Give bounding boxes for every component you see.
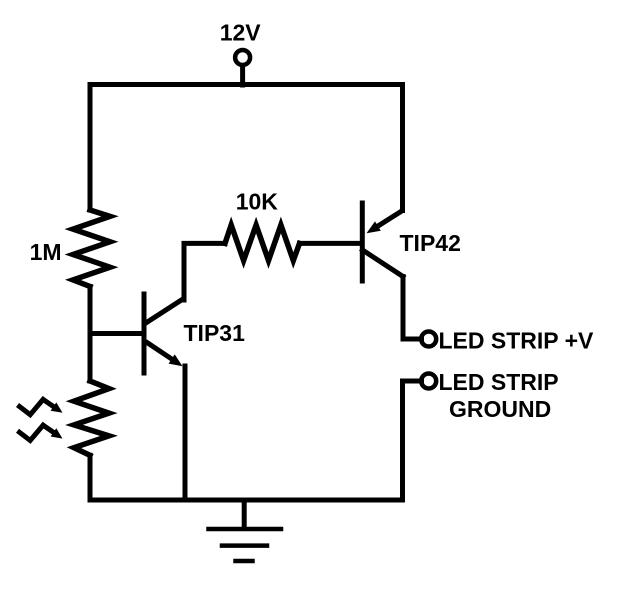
terminal 12V — [235, 50, 250, 65]
resistor R1 1M — [73, 210, 110, 287]
wire bottom rail — [90, 498, 403, 503]
light arrow 1 — [20, 399, 44, 414]
wire 1M to LDR — [88, 287, 93, 382]
terminal LED STRIP +V — [421, 332, 436, 347]
svg-text:10K: 10K — [236, 188, 279, 214]
resistor R2 10K — [225, 225, 300, 261]
wire TIP31 base — [90, 331, 143, 336]
wire top rail to TIP42 emitter — [400, 85, 405, 211]
wire TIP31 collector — [184, 243, 225, 300]
wire GROUND terminal to bottom rail — [403, 381, 422, 500]
light arrow 2 — [20, 425, 44, 440]
wire top rail — [90, 82, 403, 87]
svg-text:12V: 12V — [220, 19, 262, 45]
transistor Q2 TIP42 — [362, 203, 403, 281]
wire 10K to TIP42 base — [300, 241, 361, 246]
svg-text:TIP31: TIP31 — [184, 320, 246, 346]
wire TIP42 collector to +V terminal — [403, 277, 422, 340]
wire left rail upper — [88, 85, 93, 211]
wire TIP31 emitter to bottom rail — [183, 366, 188, 500]
wire 12V stub — [240, 67, 245, 86]
svg-text:LED STRIP +V: LED STRIP +V — [439, 327, 595, 353]
svg-text:GROUND: GROUND — [449, 396, 551, 422]
ground — [209, 500, 282, 561]
svg-text:TIP42: TIP42 — [400, 230, 461, 256]
photoresistor LDR — [74, 381, 109, 455]
transistor Q1 TIP31 — [144, 294, 183, 373]
svg-text:1M: 1M — [30, 239, 62, 265]
terminal LED STRIP GROUND — [421, 374, 436, 389]
wire LDR to bottom rail — [88, 455, 93, 500]
svg-text:LED STRIP: LED STRIP — [439, 369, 559, 395]
